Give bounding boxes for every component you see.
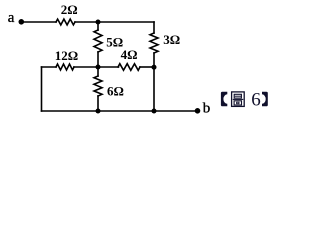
wire middle rail right segment — [140, 66, 154, 68]
svg-text:12Ω: 12Ω — [55, 48, 78, 63]
wire middle rail left segment — [42, 66, 57, 68]
node junction middle right (3Ω/4Ω) — [152, 65, 157, 70]
resistor 2Ω (top horizontal) — [56, 19, 75, 25]
svg-text:2Ω: 2Ω — [61, 2, 78, 17]
wire center column middle lead — [97, 52, 99, 76]
wire middle rail left corner down to bottom rail — [41, 67, 43, 111]
caption bracket 】 — [262, 92, 268, 107]
wire middle rail center segment — [74, 66, 119, 68]
wire right column lower lead to bottom rail — [153, 53, 155, 111]
wire top rail from 2Ω to corner — [75, 21, 154, 23]
resistor 6Ω (center vertical lower) — [94, 76, 102, 96]
resistor 12Ω (middle horizontal left) — [56, 64, 74, 70]
svg-text:4Ω: 4Ω — [121, 47, 138, 62]
svg-text:3Ω: 3Ω — [163, 32, 180, 47]
resistor 4Ω (middle horizontal right) — [118, 64, 140, 71]
resistor 3Ω (right vertical) — [150, 33, 158, 53]
resistor 5Ω (center vertical upper) — [94, 30, 102, 52]
wire top rail a to right corner — [22, 21, 57, 23]
caption character 圖 — [232, 92, 245, 107]
wire center column bottom lead — [97, 96, 99, 111]
figure caption 【圖 6】 — [221, 90, 268, 111]
wire center column upper lead — [97, 22, 99, 30]
caption bracket 【 — [221, 92, 227, 107]
wire bottom rail — [42, 110, 198, 112]
node junction top (2Ω/5Ω) — [96, 20, 101, 25]
svg-text:6: 6 — [251, 90, 261, 111]
svg-text:b: b — [203, 101, 211, 117]
svg-text:6Ω: 6Ω — [107, 83, 124, 98]
node junction middle left (5Ω/6Ω/12Ω/4Ω) — [96, 65, 101, 70]
svg-text:a: a — [8, 10, 15, 26]
wire right column upper lead — [153, 22, 155, 33]
node a terminal dot — [19, 19, 25, 25]
node junction bottom center — [96, 109, 101, 114]
node b terminal dot — [195, 108, 201, 114]
node junction bottom right — [152, 109, 157, 114]
